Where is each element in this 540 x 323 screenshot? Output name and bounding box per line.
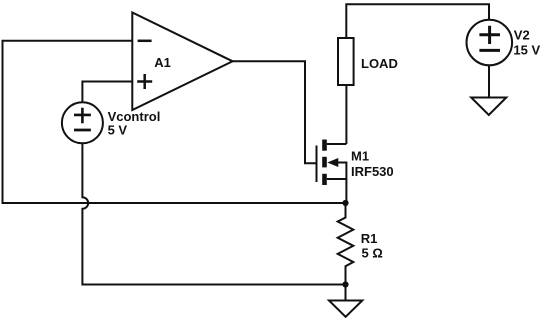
wire M1 drain to LOAD [345, 85, 347, 144]
voltage source V2 [467, 20, 513, 66]
junction node R1/ground bus [342, 281, 348, 287]
junction node source/R1/feedback [342, 200, 348, 206]
label Vcontrol 5 V [108, 109, 161, 137]
label R1 5 Ω [361, 231, 383, 261]
svg-text:5 Ω: 5 Ω [362, 246, 383, 261]
wire V2 negative to ground [488, 65, 490, 97]
wire op-amp output to M1 gate [233, 61, 316, 163]
ground (V2) [471, 98, 506, 116]
wire LOAD top to V2 positive rail [346, 4, 489, 38]
wire non-inverting input [82, 82, 132, 103]
resistor R1 [338, 203, 354, 285]
svg-text:V2: V2 [514, 27, 530, 42]
ground (main) [329, 301, 362, 317]
svg-text:IRF530: IRF530 [351, 164, 394, 179]
resistor LOAD [338, 38, 354, 85]
wire inverting-input feedback net [3, 41, 343, 203]
svg-text:15 V: 15 V [513, 42, 540, 57]
voltage source Vcontrol [62, 102, 103, 143]
svg-text:R1: R1 [361, 231, 378, 246]
svg-text:M1: M1 [351, 149, 369, 164]
wire junction to ground [345, 285, 347, 301]
svg-text:5 V: 5 V [108, 123, 128, 138]
transistor M1 (N-MOSFET) [317, 140, 347, 186]
wire Vcontrol negative to ground bus (hops over feedback wire) [82, 143, 342, 284]
wire M1 source to sense node [345, 179, 347, 203]
svg-text:LOAD: LOAD [361, 56, 398, 71]
label V2 15 V [513, 27, 540, 57]
label M1 IRF530 [351, 149, 394, 180]
op-amp A1 [132, 13, 232, 111]
svg-text:A1: A1 [154, 55, 171, 70]
